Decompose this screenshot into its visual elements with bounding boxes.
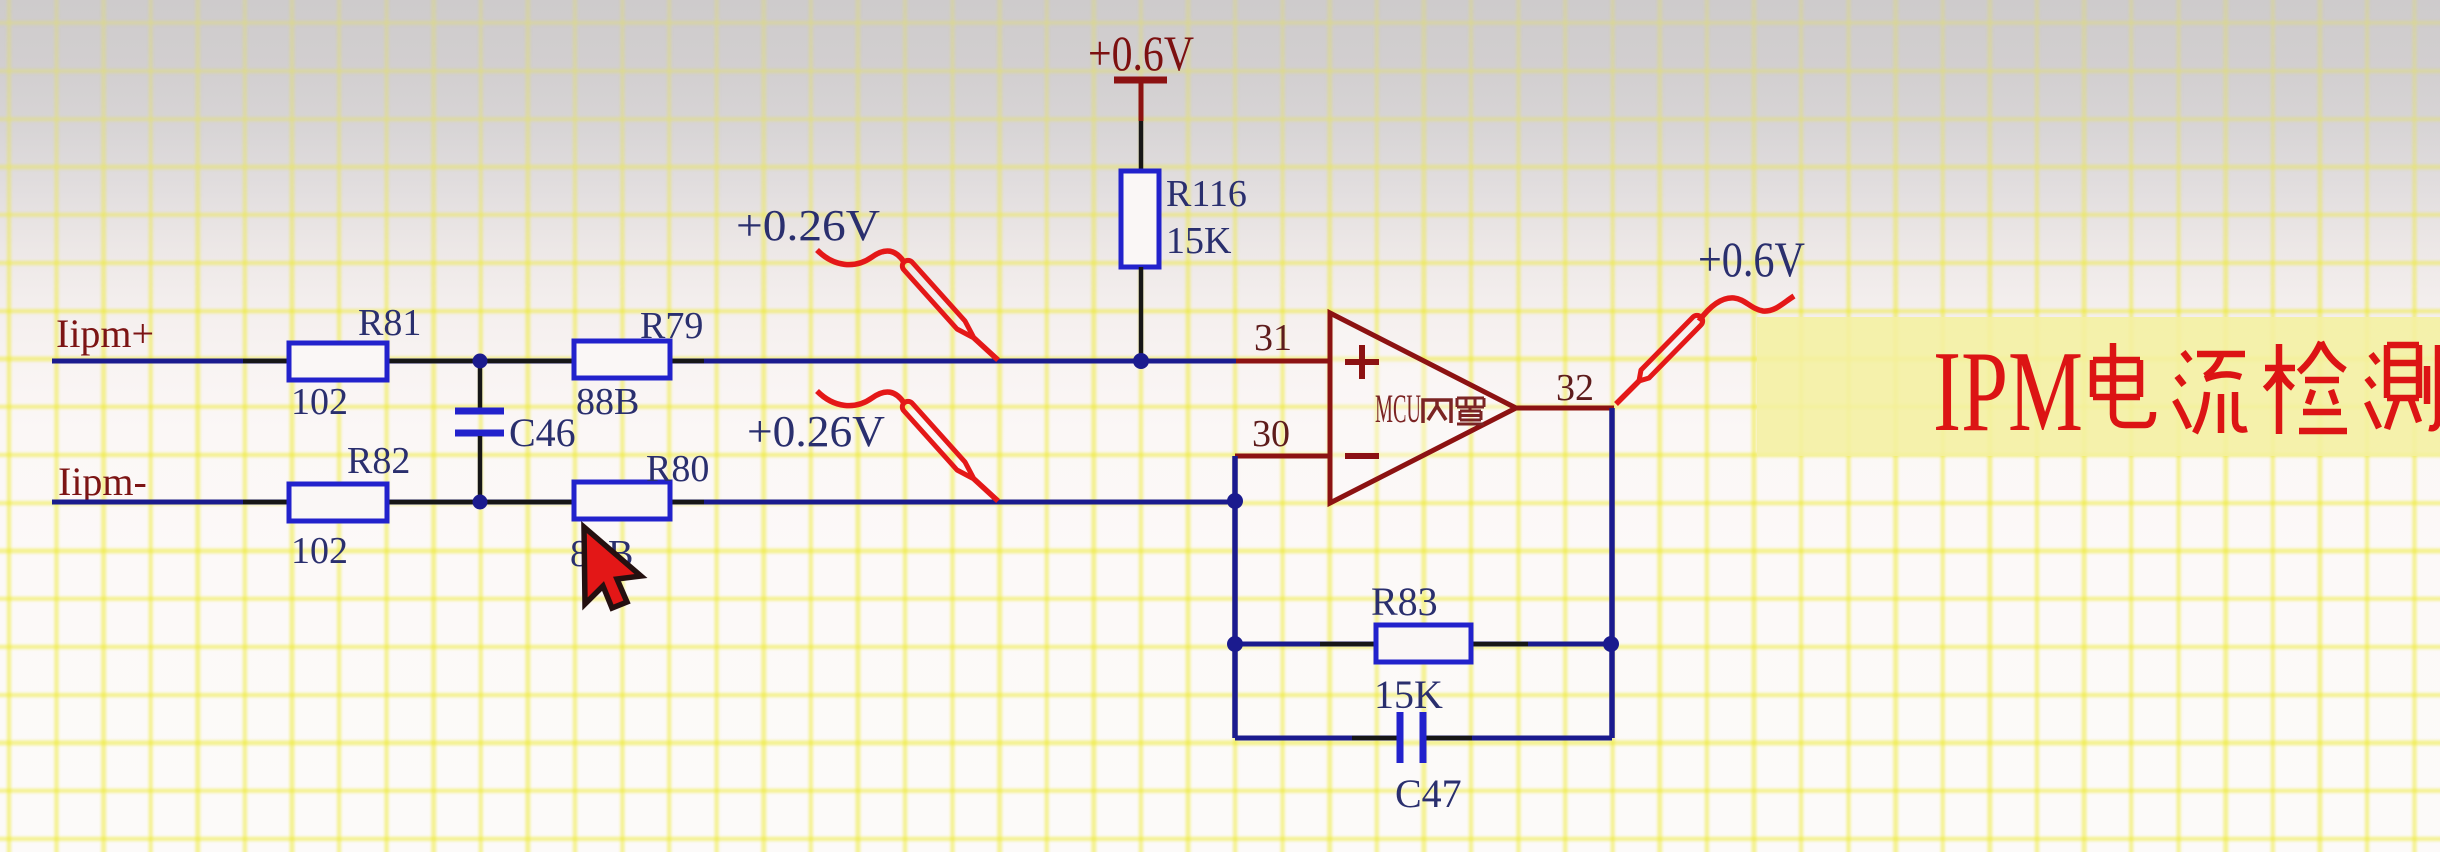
title glyph 检 (2265, 342, 2347, 434)
output pin 32 wire (1516, 406, 1614, 411)
resistor R116 (1121, 171, 1159, 267)
label C47 (1395, 771, 1462, 816)
value 88B (R79) (576, 381, 639, 423)
value 15K (R116) (1166, 220, 1232, 262)
svg-text:31: 31 (1254, 317, 1292, 359)
resistor R79 (574, 341, 670, 378)
power bar symbol +0.6V (1114, 80, 1167, 121)
svg-text:+0.6V: +0.6V (1698, 231, 1805, 287)
value 88B (R80) (570, 533, 633, 575)
label C46 (509, 410, 576, 455)
svg-text:102: 102 (291, 530, 348, 572)
svg-text:R83: R83 (1371, 579, 1438, 624)
svg-text:R81: R81 (358, 302, 421, 344)
svg-text:15K: 15K (1166, 220, 1232, 262)
wire Iipm+ net horizontal (52, 359, 1236, 364)
svg-text:32: 32 (1556, 367, 1594, 409)
svg-text:+0.26V: +0.26V (736, 201, 880, 250)
no-ERC probe upper (817, 250, 998, 360)
svg-text:Iipm-: Iipm- (58, 459, 147, 504)
svg-text:C47: C47 (1395, 771, 1462, 816)
svg-text:15K: 15K (1374, 672, 1443, 717)
feedback wire middle (1235, 642, 1610, 647)
label +0.26V upper (736, 201, 880, 250)
pin label 31 (1254, 317, 1292, 359)
no-ERC probe output (1616, 296, 1794, 404)
op-amp text glyph 置 (1457, 398, 1484, 424)
feedback wire bottom (1235, 736, 1612, 741)
label R82 (347, 440, 410, 482)
svg-text:+0.26V: +0.26V (747, 407, 885, 456)
net label Iipm- (58, 459, 147, 504)
junction dot bottom C46 (473, 495, 488, 510)
label R83 (1371, 579, 1438, 624)
junction dot R116/wire (1133, 353, 1149, 369)
value 102 (R81) (291, 381, 348, 423)
junction dot feedback left (1227, 636, 1243, 652)
wire Iipm- net horizontal (52, 500, 1235, 505)
svg-text:Iipm+: Iipm+ (56, 311, 154, 356)
pin 31 wire (1236, 359, 1330, 364)
cursor arrow (584, 527, 641, 608)
title glyph 测 (2367, 345, 2438, 429)
junction dot feedback right (1603, 636, 1619, 652)
svg-text:30: 30 (1252, 413, 1290, 455)
svg-text:R80: R80 (646, 448, 709, 490)
svg-text:IPM: IPM (1933, 328, 2083, 456)
pin 30 wire (1235, 454, 1330, 459)
label +0.26V lower (747, 407, 885, 456)
yellow highlight band (1757, 317, 2440, 456)
net label Iipm+ (56, 311, 154, 356)
resistor R81 (289, 343, 387, 380)
title IPM (latin part) (1933, 328, 2083, 456)
resistor R83 (1376, 625, 1471, 662)
resistor R80 (574, 482, 670, 519)
op-amp U1 (MCU internal) (1330, 313, 1516, 503)
svg-text:C46: C46 (509, 410, 576, 455)
capacitor C46 (455, 361, 504, 502)
power +0.6V top label (1088, 25, 1194, 81)
wire pin30 elbow down to feedback (1232, 456, 1238, 738)
svg-text:R82: R82 (347, 440, 410, 482)
label R81 (358, 302, 421, 344)
no-ERC probe lower (817, 391, 998, 501)
capacitor C47 (1400, 712, 1423, 763)
svg-text:R116: R116 (1166, 173, 1247, 215)
label R79 (640, 305, 703, 347)
wire output down right side (1609, 408, 1615, 738)
label R116 (1166, 173, 1247, 215)
svg-text:102: 102 (291, 381, 348, 423)
op-amp text glyph 内 (1423, 400, 1451, 423)
label R80 (646, 448, 709, 490)
pin label 30 (1252, 413, 1290, 455)
value 102 (R82) (291, 530, 348, 572)
wire R116 to node (1139, 267, 1144, 361)
label +0.6V right (1698, 231, 1805, 287)
pin label 32 (1556, 367, 1594, 409)
svg-text:MCU: MCU (1375, 386, 1421, 431)
resistor R82 (289, 484, 387, 521)
svg-text:+0.6V: +0.6V (1088, 25, 1194, 81)
svg-text:R79: R79 (640, 305, 703, 347)
title glyph 流 (2175, 352, 2247, 433)
wire power to R116 (1139, 121, 1144, 171)
svg-text:88B: 88B (576, 381, 639, 423)
value 15K (R83) (1374, 672, 1443, 717)
junction dot top C46 (473, 354, 488, 369)
op-amp text MCU (1375, 386, 1421, 431)
title glyph 电 (2093, 343, 2153, 425)
junction dot Iipm- / elbow (1227, 493, 1243, 509)
